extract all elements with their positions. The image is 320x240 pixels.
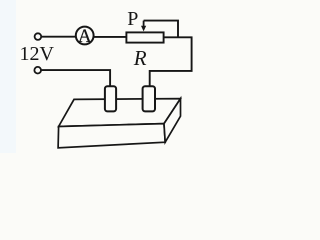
wire bottom terminal to left electrode bbox=[41, 70, 110, 86]
slab (3D conductor block) top face bbox=[59, 99, 181, 127]
electrode left bbox=[105, 86, 116, 111]
slab right face bbox=[164, 99, 181, 143]
wiper arrow bbox=[143, 21, 145, 27]
ammeter A bbox=[76, 27, 94, 45]
wire terminal to ammeter bbox=[41, 36, 76, 38]
wire rheostat right to down bbox=[150, 37, 192, 86]
rheostat R body bbox=[126, 32, 163, 42]
wire wiper up/right bbox=[144, 21, 178, 38]
slab front face bbox=[58, 124, 165, 148]
terminal - (bottom) bbox=[34, 67, 41, 74]
svg-text:R: R bbox=[133, 46, 147, 70]
terminal + (top) bbox=[35, 33, 42, 40]
wire ammeter to rheostat bbox=[94, 36, 127, 38]
electrode right bbox=[143, 86, 155, 111]
svg-text:A: A bbox=[78, 26, 92, 47]
svg-text:P: P bbox=[127, 8, 138, 30]
svg-text:12V: 12V bbox=[20, 43, 55, 65]
